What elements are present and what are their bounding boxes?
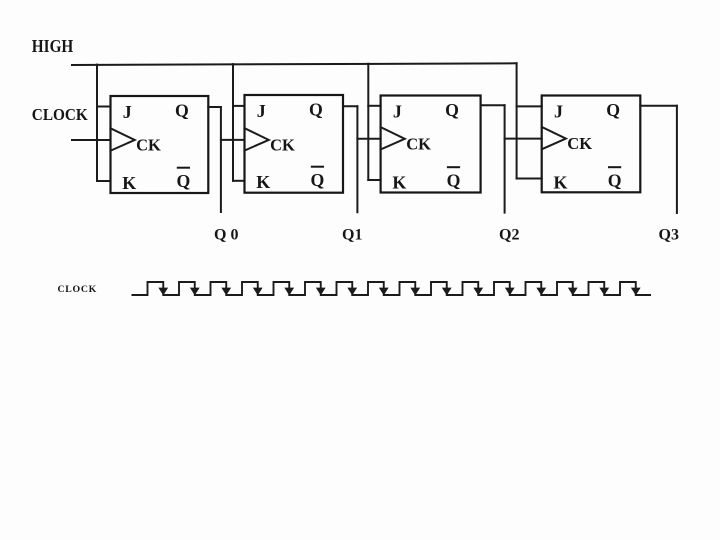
- svg-text:CK: CK: [406, 134, 431, 153]
- wire HIGH drop to U2 J/K: [232, 64, 234, 181]
- svg-text:Q: Q: [447, 171, 461, 191]
- svg-text:J: J: [393, 102, 402, 122]
- wire U3 Q output stub: [481, 104, 505, 106]
- U4 clock edge triangle: [542, 127, 566, 149]
- svg-text:CK: CK: [136, 136, 161, 155]
- svg-text:K: K: [256, 172, 270, 192]
- wire U3 Q drop to node Q2: [504, 105, 506, 212]
- svg-text:CK: CK: [567, 134, 592, 153]
- JK flip-flop U1 box: [111, 96, 209, 193]
- wire U3 K input stub: [368, 179, 380, 181]
- svg-text:Q: Q: [175, 101, 189, 121]
- clock waveform falling-edge arrows: [158, 288, 640, 296]
- svg-text:Q: Q: [606, 100, 620, 120]
- svg-text:J: J: [257, 101, 266, 121]
- U1 clock edge triangle: [111, 128, 135, 150]
- svg-text:J: J: [123, 102, 132, 122]
- JK flip-flop U4 box: [542, 96, 641, 193]
- svg-text:Q 0: Q 0: [214, 227, 238, 244]
- wire U2 Q drop to node Q1: [356, 106, 358, 212]
- wire U3 Q to U4 CK: [505, 138, 542, 140]
- svg-text:Q: Q: [309, 100, 323, 120]
- wire U4 J input stub: [517, 105, 542, 107]
- U2 clock edge triangle: [245, 128, 269, 150]
- svg-text:Q: Q: [177, 171, 191, 191]
- wire U1 Q output stub: [208, 106, 221, 108]
- wire U4 Q output stub: [640, 105, 677, 107]
- svg-text:Q3: Q3: [659, 227, 679, 244]
- wire U4 K input stub: [517, 178, 542, 180]
- JK flip-flop U2 box: [245, 95, 344, 193]
- wire U1 Q to U2 CK: [221, 139, 245, 141]
- svg-text:CLOCK: CLOCK: [58, 284, 97, 295]
- wire U2 J input stub: [233, 105, 245, 107]
- wire HIGH rail: [72, 63, 517, 65]
- svg-text:Q1: Q1: [342, 227, 362, 244]
- JK flip-flop U3 box: [381, 96, 481, 193]
- wire U2 K input stub: [233, 180, 245, 182]
- wire CLOCK input to U1 CK: [72, 139, 111, 141]
- svg-text:K: K: [122, 173, 136, 193]
- svg-text:CK: CK: [270, 136, 295, 155]
- svg-text:CLOCK: CLOCK: [32, 105, 88, 124]
- wire HIGH drop to U1 J/K: [96, 65, 98, 181]
- svg-text:J: J: [554, 102, 563, 122]
- U3 clock edge triangle: [381, 127, 405, 149]
- wire U1 K input stub: [97, 180, 111, 182]
- wire U4 Q drop to node Q3: [676, 106, 678, 213]
- svg-text:Q: Q: [445, 100, 459, 120]
- svg-text:K: K: [392, 173, 406, 193]
- clock waveform square wave: [132, 282, 652, 295]
- wire HIGH drop to U4: [516, 63, 518, 178]
- svg-text:Q2: Q2: [499, 227, 519, 244]
- wire U2 Q to U3 CK: [357, 138, 380, 140]
- svg-text:Q: Q: [311, 170, 325, 190]
- wire U3 J input stub: [368, 105, 380, 107]
- wire U1 Q drop to node Q0: [220, 107, 222, 212]
- wire U1 J input stub: [97, 106, 111, 108]
- wire U2 Q output stub: [343, 105, 357, 107]
- svg-text:K: K: [554, 173, 568, 193]
- svg-text:HIGH: HIGH: [32, 36, 74, 56]
- wire HIGH drop to U3 J/K: [367, 64, 369, 180]
- svg-text:Q: Q: [608, 171, 622, 191]
